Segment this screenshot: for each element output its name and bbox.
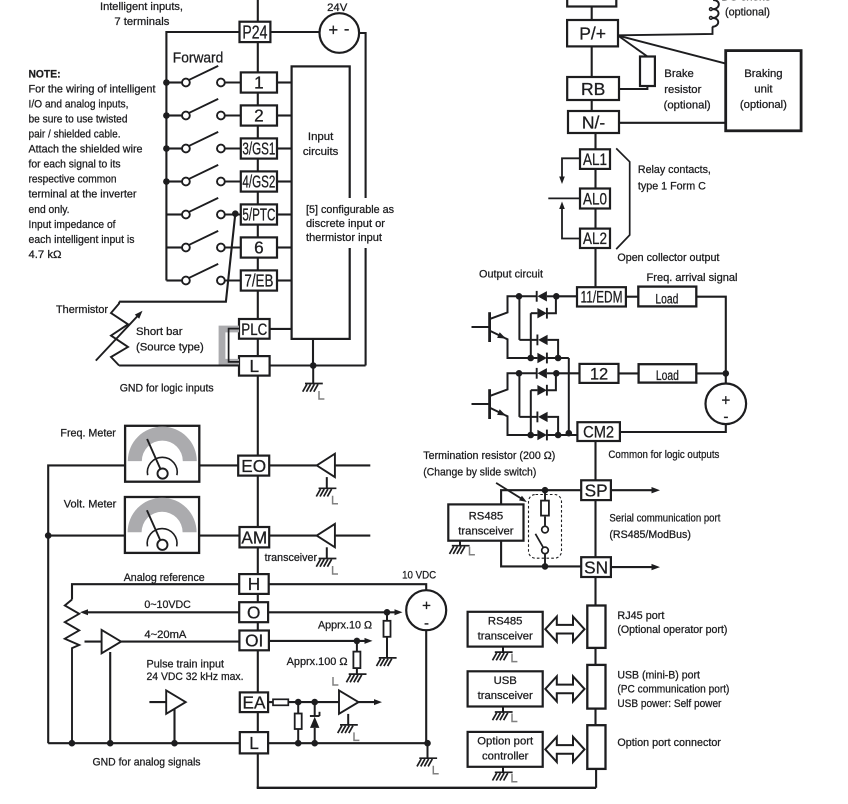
svg-text:11/EDM: 11/EDM [581, 289, 623, 307]
svg-text:-: - [723, 408, 728, 425]
label open collector [617, 252, 720, 264]
label freq arrival [647, 272, 738, 284]
svg-text:type 1 Form C: type 1 Form C [638, 181, 706, 193]
svg-text:0~10VDC: 0~10VDC [144, 599, 191, 611]
wire [626, 296, 638, 298]
svg-text:PLC: PLC [241, 321, 267, 339]
svg-text:transceiver: transceiver [478, 630, 533, 642]
RS485 transceiver [448, 504, 523, 540]
svg-text:OI: OI [245, 631, 263, 651]
label 0~10VDC [144, 599, 191, 611]
ground [338, 714, 360, 741]
label termination [423, 450, 555, 479]
terminal 6 [241, 237, 277, 257]
wire [696, 297, 726, 385]
junction [171, 740, 178, 747]
junction [69, 740, 76, 747]
svg-text:+: + [721, 392, 730, 409]
wire [257, 547, 259, 574]
double arrow [545, 617, 584, 642]
ground [316, 477, 338, 504]
terminal 1 [241, 72, 277, 92]
amp U2 [317, 524, 335, 547]
wire [268, 742, 427, 744]
junction [163, 178, 170, 185]
wire [269, 584, 426, 590]
wire [257, 159, 259, 172]
amp U1 [317, 454, 335, 477]
option port [587, 725, 605, 769]
svg-text:4/GS2: 4/GS2 [242, 172, 275, 192]
label Thermistor [56, 304, 108, 316]
termination resistor box [529, 495, 562, 559]
arrow [496, 483, 527, 502]
label common logic [608, 449, 719, 461]
svg-text:Load: Load [655, 291, 678, 307]
wire [277, 246, 292, 248]
junction [310, 362, 317, 369]
switch S3 [166, 132, 240, 153]
ground [450, 541, 475, 555]
wire [119, 364, 239, 366]
wire [257, 594, 259, 602]
svg-text:end only.: end only. [29, 204, 70, 216]
RS485 transceiver 2 [468, 612, 543, 647]
wire [166, 32, 239, 281]
svg-text:RB: RB [581, 79, 605, 99]
wire [257, 622, 259, 630]
label Short bar [136, 326, 204, 353]
terminal (cut) [567, 0, 616, 7]
svg-text:DC choke: DC choke [721, 0, 771, 4]
wire [335, 464, 370, 466]
wire [85, 641, 102, 643]
wire [620, 424, 726, 432]
wire [48, 465, 125, 743]
wire [257, 712, 259, 732]
svg-text:transceiver: transceiver [478, 690, 533, 702]
svg-text:USB (mini-B) port: USB (mini-B) port [617, 669, 700, 681]
wire [257, 787, 596, 789]
wire [268, 701, 273, 703]
terminal AL0 [580, 189, 610, 209]
label 24VDC 32kHz [147, 671, 244, 683]
resistor R1 [295, 702, 302, 743]
wire [594, 441, 596, 480]
junction [311, 699, 318, 706]
svg-text:5/PTC: 5/PTC [242, 205, 275, 225]
svg-text:7/EB: 7/EB [244, 271, 273, 291]
label Forward [173, 49, 224, 66]
svg-text:[5] configurable as: [5] configurable as [306, 204, 394, 216]
wire [257, 225, 259, 238]
label GND for logic inputs [120, 383, 214, 395]
label Pulse train input [147, 659, 225, 671]
bracket [616, 148, 630, 249]
double arrow [545, 676, 584, 701]
terminal SN [581, 557, 611, 577]
label Analog reference [124, 572, 205, 584]
wire [619, 372, 639, 374]
svg-text:4~20mA: 4~20mA [144, 629, 186, 641]
wire [594, 169, 596, 189]
wire [270, 31, 319, 33]
wire [556, 295, 576, 297]
terminal 4/GS2 [241, 171, 277, 191]
freq meter M1 [125, 426, 199, 482]
ground [493, 767, 518, 782]
svg-text:AL1: AL1 [583, 151, 607, 169]
svg-text:each intelligent input is: each intelligent input is [29, 234, 135, 246]
svg-text:terminal at the inverter: terminal at the inverter [29, 189, 137, 201]
terminal SP [581, 480, 611, 500]
wire [199, 464, 238, 466]
ground [346, 674, 366, 682]
terminal EO [238, 456, 269, 476]
terminal 7/EB [241, 270, 277, 290]
svg-text:USB power: Self power: USB power: Self power [617, 698, 721, 710]
svg-text:(optional): (optional) [725, 6, 770, 18]
ground [377, 651, 397, 667]
wire [257, 258, 259, 271]
junction [384, 609, 391, 616]
wire [618, 27, 712, 36]
svg-text:controller: controller [482, 751, 529, 763]
svg-text:P24: P24 [242, 23, 267, 43]
wire [199, 535, 239, 537]
arrow [365, 638, 373, 644]
svg-text:Input impedance of: Input impedance of [29, 219, 117, 231]
svg-text:N/-: N/- [582, 112, 606, 132]
wire [277, 147, 292, 149]
junction [311, 740, 318, 747]
label transceiver [265, 552, 318, 564]
wire [611, 566, 655, 568]
svg-text:L: L [250, 356, 260, 376]
wire [591, 46, 593, 77]
wire [121, 641, 239, 643]
terminal AM [240, 527, 270, 547]
label Volt. Meter [64, 498, 117, 510]
svg-text:Attach the shielded wire: Attach the shielded wire [29, 144, 143, 156]
wire [501, 541, 581, 567]
junction [542, 563, 549, 570]
label optional choke [721, 0, 771, 18]
svg-text:resistor: resistor [664, 84, 701, 96]
wire [119, 214, 235, 302]
wire [268, 640, 367, 642]
wire [277, 114, 292, 116]
svg-text:be sure to use twisted: be sure to use twisted [29, 114, 128, 126]
label L [333, 677, 338, 685]
label USB [617, 669, 729, 710]
svg-text:Brake: Brake [664, 68, 694, 80]
ground [303, 366, 325, 400]
label relay contacts [638, 164, 711, 193]
svg-text:O: O [247, 602, 260, 622]
junction [232, 210, 239, 217]
label Apprx.10 [318, 619, 372, 631]
svg-text:(Optional operator port): (Optional operator port) [617, 624, 727, 636]
junction [163, 112, 170, 119]
terminal L [239, 356, 270, 376]
wire [591, 7, 593, 21]
svg-text:for each signal to its: for each signal to its [29, 159, 121, 171]
arrow [652, 564, 661, 570]
volt meter M2 [125, 497, 199, 553]
svg-text:For the wiring of intelligent: For the wiring of intelligent [29, 83, 157, 95]
inductor (DC choke) [710, 0, 719, 27]
svg-text:EO: EO [241, 456, 266, 476]
svg-text:+: + [422, 597, 431, 614]
junction [45, 532, 52, 539]
wire [270, 364, 366, 366]
svg-text:-: - [344, 21, 350, 39]
24V supply [320, 2, 360, 53]
wire [595, 769, 597, 788]
terminal 2 [241, 105, 277, 125]
wire [277, 81, 292, 83]
svg-text:transceiver: transceiver [265, 552, 318, 564]
wire [594, 577, 596, 606]
svg-text:+: + [328, 21, 338, 39]
amp U4 [166, 690, 186, 713]
wire [257, 650, 259, 692]
wire [269, 535, 317, 537]
svg-text:6: 6 [254, 238, 264, 258]
svg-text:7 terminals: 7 terminals [114, 16, 169, 28]
ground [493, 707, 518, 722]
arrow [80, 609, 88, 615]
svg-text:Apprx.100 Ω: Apprx.100 Ω [287, 656, 348, 668]
svg-text:CM2: CM2 [583, 424, 614, 442]
label intelligent inputs [100, 1, 183, 28]
svg-text:Common for logic outputs: Common for logic outputs [608, 449, 719, 461]
svg-text:Option port: Option port [477, 736, 534, 748]
label 10 VDC [402, 570, 436, 582]
wire [257, 126, 259, 139]
10VDC supply [406, 590, 446, 632]
wire [277, 213, 292, 215]
open collector Q1 cell [472, 291, 569, 433]
wire [48, 535, 125, 537]
wire [277, 180, 292, 182]
label GND analog [93, 757, 201, 769]
braking unit [726, 51, 801, 131]
zener diode D1 [310, 702, 320, 743]
svg-text:EA: EA [243, 692, 266, 712]
svg-text:-: - [424, 615, 429, 632]
svg-text:Pulse train input: Pulse train input [147, 659, 225, 671]
svg-text:(Change by slide switch): (Change by slide switch) [423, 466, 536, 478]
svg-text:P/+: P/+ [579, 24, 606, 44]
terminal 5/PTC [241, 204, 277, 224]
svg-text:RS485: RS485 [488, 615, 523, 627]
label Freq. Meter [60, 427, 116, 439]
ground [417, 743, 439, 774]
terminal AL1 [580, 149, 610, 169]
svg-text:Relay contacts,: Relay contacts, [638, 164, 711, 176]
brake resistor [640, 57, 655, 87]
wire [257, 476, 259, 527]
svg-text:GND for logic inputs: GND for logic inputs [120, 383, 214, 395]
svg-text:unit: unit [754, 84, 773, 96]
terminal PLC [239, 319, 270, 339]
wire [268, 611, 397, 613]
wire [173, 709, 175, 743]
svg-text:Termination resistor (200 Ω): Termination resistor (200 Ω) [423, 450, 555, 462]
ext supply [706, 384, 747, 426]
svg-text:24 VDC 32 kHz max.: 24 VDC 32 kHz max. [147, 671, 244, 683]
arrow [652, 487, 661, 493]
svg-text:Forward: Forward [173, 49, 224, 66]
svg-text:10 VDC: 10 VDC [402, 570, 436, 582]
svg-text:GND for analog signals: GND for analog signals [93, 757, 201, 769]
terminal H [239, 574, 269, 594]
wire [501, 490, 581, 504]
potentiometer [65, 600, 79, 744]
switch S1 [166, 66, 240, 87]
svg-text:L: L [249, 733, 259, 753]
wire [109, 652, 111, 743]
arrow [374, 699, 382, 705]
short bar link [222, 329, 239, 363]
thermistor [96, 302, 143, 366]
arrow [395, 609, 403, 615]
junction [107, 740, 114, 747]
wire [288, 701, 339, 703]
svg-text:RS485: RS485 [469, 511, 504, 523]
junction [542, 487, 549, 494]
svg-text:Open collector output: Open collector output [617, 252, 720, 264]
svg-text:Freq. Meter: Freq. Meter [60, 427, 116, 439]
terminal EA [240, 692, 268, 712]
wire [149, 701, 166, 703]
wire [277, 279, 292, 281]
svg-text:24V: 24V [327, 2, 348, 14]
wire [86, 611, 239, 613]
double arrow [545, 737, 584, 762]
wire [257, 192, 259, 205]
wire [257, 339, 259, 356]
junction [723, 370, 730, 377]
svg-text:Load: Load [656, 368, 679, 384]
switch S5 [166, 198, 240, 219]
junction [566, 430, 573, 437]
svg-text:Serial communication port: Serial communication port [609, 513, 721, 525]
terminal P24 [240, 22, 271, 43]
svg-text:circuits: circuits [303, 146, 339, 158]
svg-text:respective common: respective common [29, 174, 117, 186]
svg-text:Option port connector: Option port connector [617, 737, 721, 749]
wire [257, 0, 259, 22]
svg-text:Analog reference: Analog reference [124, 572, 205, 584]
wire [611, 489, 655, 491]
input circuits block [292, 66, 350, 339]
svg-text:SP: SP [585, 480, 608, 500]
wire [558, 434, 577, 436]
label 4~20mA [144, 629, 186, 641]
label option port [617, 737, 721, 749]
svg-text:Volt. Meter: Volt. Meter [64, 498, 117, 510]
wire [359, 33, 366, 366]
termination resistor [541, 490, 549, 526]
open collector Q2 cell [472, 368, 569, 441]
svg-text:H: H [248, 574, 260, 594]
svg-text:Intelligent inputs,: Intelligent inputs, [100, 1, 183, 13]
wire [594, 648, 596, 665]
svg-text:Braking: Braking [744, 68, 782, 80]
svg-text:USB: USB [494, 675, 517, 687]
svg-text:AL0: AL0 [583, 190, 607, 208]
RJ45 port [587, 606, 605, 648]
svg-text:Apprx.10 Ω: Apprx.10 Ω [318, 619, 372, 631]
svg-text:I/O and analog inputs,: I/O and analog inputs, [29, 98, 129, 110]
amp U5 [339, 690, 359, 713]
svg-text:RJ45 port: RJ45 port [617, 610, 665, 622]
label RJ45 [617, 610, 727, 636]
svg-text:Thermistor: Thermistor [56, 304, 108, 316]
svg-text:Input: Input [308, 131, 334, 143]
wire [359, 701, 377, 703]
wire [257, 93, 259, 106]
terminal RB [567, 77, 619, 100]
wire [257, 291, 259, 320]
option port controller [468, 732, 543, 767]
junction [163, 79, 170, 86]
relay contact arrows [548, 158, 580, 238]
series element [273, 699, 288, 705]
svg-text:1: 1 [254, 73, 264, 93]
wire [425, 630, 427, 743]
switch S7 [166, 264, 240, 285]
wire [257, 42, 259, 72]
junction [354, 638, 361, 645]
svg-text:pair / shielded cable.: pair / shielded cable. [29, 129, 121, 141]
label [5] configurable [303, 198, 401, 248]
svg-text:4.7 kΩ: 4.7 kΩ [29, 249, 62, 261]
switch S4 [166, 165, 240, 186]
wire [594, 500, 596, 557]
wire [312, 339, 314, 366]
switch S6 [166, 231, 240, 252]
ground [493, 647, 518, 662]
USB port [587, 665, 605, 709]
terminal N/- [568, 111, 619, 133]
wire [270, 328, 292, 330]
wire [257, 376, 259, 456]
svg-text:Output circuit: Output circuit [479, 268, 544, 280]
wire [556, 372, 579, 374]
wire [72, 584, 239, 599]
wire [618, 36, 647, 57]
resistor 10ohm [384, 612, 391, 650]
svg-text:(PC communication port): (PC communication port) [617, 684, 729, 696]
label brake resistor [664, 68, 711, 111]
terminal L [240, 732, 268, 753]
junction [295, 699, 302, 706]
wire [619, 122, 726, 124]
label serial port [609, 513, 721, 542]
terminal P/+ [567, 20, 618, 46]
USB transceiver [468, 671, 543, 706]
ground [316, 547, 338, 574]
svg-text:(optional): (optional) [740, 99, 787, 111]
terminal O [239, 602, 268, 622]
wire [335, 535, 370, 537]
wire [594, 248, 596, 288]
wire [48, 742, 240, 744]
